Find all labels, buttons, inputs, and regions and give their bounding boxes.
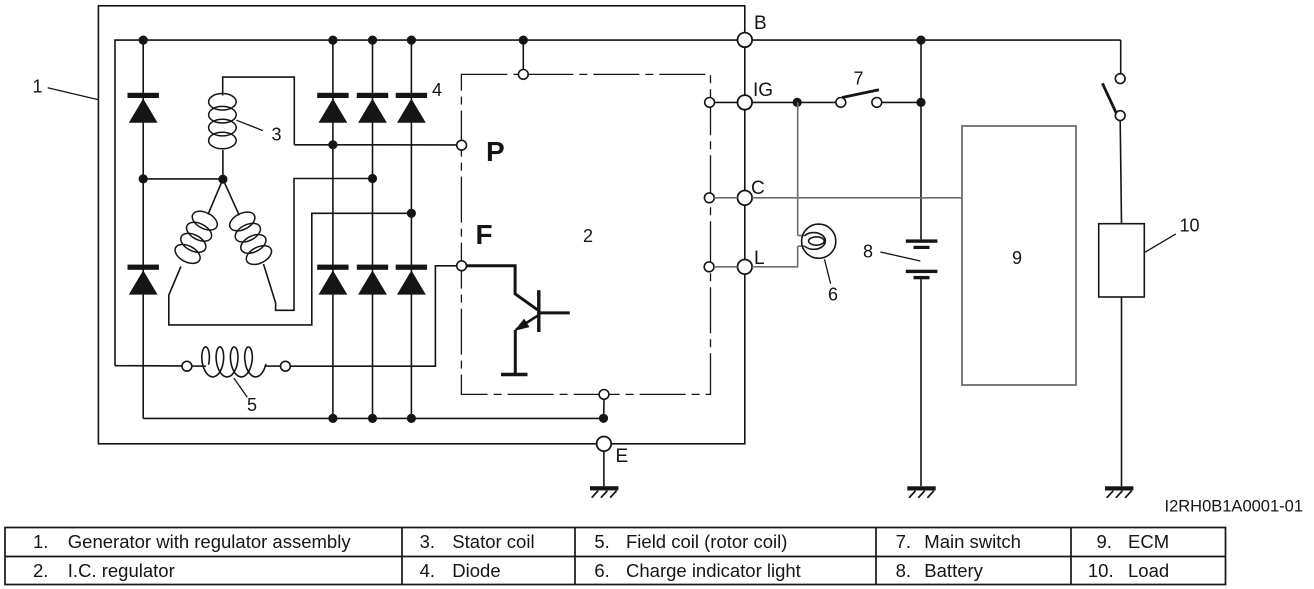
- svg-text:9.: 9.: [1097, 531, 1112, 552]
- battery cell 1 short plate: [914, 246, 930, 249]
- ground symbol below battery: [907, 486, 935, 490]
- svg-text:Field coil (rotor coil): Field coil (rotor coil): [626, 531, 787, 552]
- svg-text:8: 8: [863, 242, 873, 262]
- svg-text:7.: 7.: [896, 531, 911, 552]
- wire: top bus corner down to load switch: [1120, 40, 1122, 73]
- junction dot top bus / column 1: [328, 36, 337, 45]
- diode D2 (neutral bottom): [128, 265, 159, 270]
- junction dot bottom wire / column 2: [368, 414, 377, 423]
- diode D6: [317, 265, 348, 270]
- svg-text:I.C. regulator: I.C. regulator: [68, 560, 175, 581]
- wire: coil3 top routing to P line: [223, 77, 295, 145]
- wire: left diode column x=143: [142, 40, 144, 418]
- transistor Q1 collector: [539, 311, 570, 314]
- wire: switch to load box: [1120, 121, 1121, 224]
- wire: regulator to C (gray): [714, 197, 737, 199]
- svg-text:7: 7: [853, 69, 863, 89]
- label 1 leader: [48, 88, 99, 100]
- generator assembly box (component 1): [98, 6, 744, 444]
- battery cell 2 long plate: [906, 270, 938, 273]
- F terminal circle: [457, 261, 467, 271]
- wire: coil3 bottom to star point: [222, 150, 224, 179]
- lamp top lead (gray): [798, 235, 805, 237]
- label 6 leader: [825, 259, 831, 283]
- svg-text:Charge indicator light: Charge indicator light: [626, 560, 801, 581]
- ground symbol below load: [1105, 486, 1133, 490]
- svg-text:IG: IG: [753, 80, 773, 101]
- diode D7: [357, 265, 388, 270]
- svg-text:Diode: Diode: [452, 560, 500, 581]
- wire: top bus from (115,40) to B and beyond to load corner: [115, 40, 1121, 366]
- wire: battery to ground: [920, 279, 922, 486]
- wire: regulator bottom to E dot: [603, 399, 605, 418]
- svg-text:L: L: [754, 248, 765, 269]
- battery cell 2 short plate: [914, 276, 930, 279]
- junction dot bottom wire / column 1: [328, 414, 337, 423]
- svg-text:8.: 8.: [896, 560, 911, 581]
- wire: field coil left feed: [115, 365, 182, 367]
- svg-text:I2RH0B1A0001-01: I2RH0B1A0001-01: [1164, 498, 1303, 516]
- svg-text:1.: 1.: [33, 531, 48, 552]
- charge indicator lamp 6 bulb: [802, 224, 836, 258]
- junction dot phase B to column 3: [407, 209, 416, 218]
- wire: regulator to IG: [715, 101, 738, 103]
- load switch top contact: [1115, 74, 1125, 84]
- terminal B circle: [738, 33, 753, 48]
- wire: lamp branch (gray) from IG dot down: [797, 102, 799, 235]
- junction dot battery branch top: [916, 36, 925, 45]
- svg-text:6: 6: [828, 285, 838, 305]
- junction dot phase A to column 1: [328, 140, 337, 149]
- stator coil 3 phase C (right diagonal): [227, 208, 275, 268]
- wire: IG to switch: [752, 101, 836, 103]
- svg-text:2: 2: [583, 226, 593, 246]
- wire: coil to right circle: [266, 365, 281, 367]
- svg-text:F: F: [476, 219, 493, 250]
- terminal E circle: [597, 437, 612, 452]
- main switch 7 right contact: [872, 98, 882, 108]
- svg-text:1: 1: [32, 77, 42, 97]
- wire: rectifier column 1: [332, 40, 334, 418]
- ground symbol below E: [590, 486, 618, 490]
- terminal IG circle: [738, 95, 753, 110]
- load switch bottom contact: [1115, 111, 1125, 121]
- wire: load box to ground: [1121, 297, 1123, 486]
- label 10 leader: [1145, 234, 1176, 252]
- diode D1 (neutral top): [128, 93, 159, 98]
- junction dot neutral point column 0: [139, 174, 148, 183]
- transistor Q1 base bar: [537, 290, 540, 332]
- junction dot top bus / column 3: [407, 36, 416, 45]
- svg-text:3: 3: [271, 125, 281, 145]
- wire: C to ECM (gray): [752, 197, 962, 199]
- junction dot star point: [218, 175, 227, 184]
- wire: E to ground: [603, 451, 605, 486]
- junction dot IG/lamp branch: [793, 98, 802, 107]
- wire: right winding to rectifier column 2 routing: [264, 179, 373, 311]
- field coil right circle: [281, 361, 291, 371]
- wire: field coil to F terminal: [290, 266, 457, 366]
- svg-text:P: P: [486, 136, 505, 167]
- label 3 leader: [236, 120, 263, 130]
- load switch blade: [1102, 83, 1117, 114]
- I.C. regulator box 2 (dashed): [461, 74, 710, 394]
- ECM box 9: [962, 126, 1076, 385]
- wire: star to left winding: [208, 179, 223, 214]
- junction dot top wire / diode column 0: [139, 36, 148, 45]
- junction dot top bus / column 2: [368, 36, 377, 45]
- lamp filament outer loop: [805, 233, 826, 250]
- junction dot bottom wire / column 3: [407, 414, 416, 423]
- field coil left circle: [182, 361, 192, 371]
- junction dot E node: [599, 414, 608, 423]
- wire: left winding to rectifier column 3 routing: [169, 213, 412, 325]
- wire: star point to neutral diodes: [143, 178, 223, 180]
- regulator right L circle: [704, 262, 714, 272]
- wire: regulator to L (gray): [714, 266, 738, 268]
- legend table borders: [5, 528, 1226, 585]
- svg-text:Battery: Battery: [924, 560, 983, 581]
- diode D5: [396, 93, 427, 98]
- transistor Q1 emitter terminal bar: [501, 373, 528, 376]
- terminal C circle: [738, 191, 753, 206]
- wire: phase A to P terminal: [294, 144, 457, 146]
- svg-text:5: 5: [247, 395, 257, 415]
- terminal L circle: [738, 260, 753, 275]
- wire: battery branch from top bus: [920, 40, 922, 239]
- svg-text:Load: Load: [1128, 560, 1169, 581]
- transistor Q1 emitter arrow: [514, 319, 529, 331]
- svg-text:4.: 4.: [420, 560, 435, 581]
- svg-text:ECM: ECM: [1128, 531, 1169, 552]
- label 8 leader: [880, 252, 920, 261]
- wire: regulator top to bus: [522, 40, 524, 69]
- wire: rectifier column 2: [372, 40, 374, 418]
- regulator right IG circle: [705, 98, 715, 108]
- wire: rectifier column 3: [410, 40, 412, 418]
- svg-text:5.: 5.: [594, 531, 609, 552]
- svg-text:C: C: [751, 178, 765, 199]
- wire: switch to battery node: [882, 101, 921, 103]
- diode D4: [357, 93, 388, 98]
- lamp bottom lead (gray): [798, 245, 805, 247]
- diode D8: [396, 265, 427, 270]
- svg-text:9: 9: [1012, 248, 1022, 268]
- svg-text:3.: 3.: [420, 531, 435, 552]
- svg-text:B: B: [754, 13, 767, 34]
- svg-text:Generator with regulator assem: Generator with regulator assembly: [68, 531, 352, 552]
- transistor Q1 emitter: [516, 316, 538, 330]
- svg-text:E: E: [616, 446, 629, 467]
- stator coil 3 phase B (left diagonal): [172, 207, 221, 267]
- stator coil 3 phase A (vertical): [209, 94, 237, 149]
- main switch 7 left contact: [836, 98, 846, 108]
- wire: bottom rectifier bus to E: [143, 417, 603, 419]
- regulator top terminal circle: [518, 70, 528, 80]
- diode D3: [317, 93, 348, 98]
- wire: lamp branch (gray) down to L: [752, 246, 798, 267]
- svg-text:4: 4: [432, 80, 442, 100]
- junction dot bus/regulator top: [519, 36, 528, 45]
- transistor Q1 emitter lead: [514, 330, 517, 375]
- P terminal circle: [457, 140, 467, 150]
- wire: circle to coil: [192, 365, 206, 367]
- svg-text:6.: 6.: [594, 560, 609, 581]
- regulator right C circle: [704, 193, 714, 203]
- svg-text:10: 10: [1179, 216, 1199, 236]
- load box 10: [1099, 224, 1145, 297]
- junction dot switch/battery: [916, 98, 925, 107]
- transistor Q1 base lead (bold) from F: [467, 266, 538, 310]
- field coil 5 (rotor coil): [202, 347, 266, 377]
- svg-text:Main switch: Main switch: [924, 531, 1021, 552]
- lamp filament inner loop: [809, 237, 825, 245]
- svg-text:2.: 2.: [33, 560, 48, 581]
- label 5 leader: [234, 378, 248, 397]
- regulator bottom circle: [599, 390, 609, 400]
- wire: star to right winding: [223, 179, 239, 215]
- battery cell 1 long plate: [906, 239, 938, 242]
- svg-text:Stator coil: Stator coil: [452, 531, 534, 552]
- junction dot phase C to column 2: [368, 174, 377, 183]
- svg-text:10.: 10.: [1088, 560, 1114, 581]
- main switch 7 blade: [842, 90, 879, 98]
